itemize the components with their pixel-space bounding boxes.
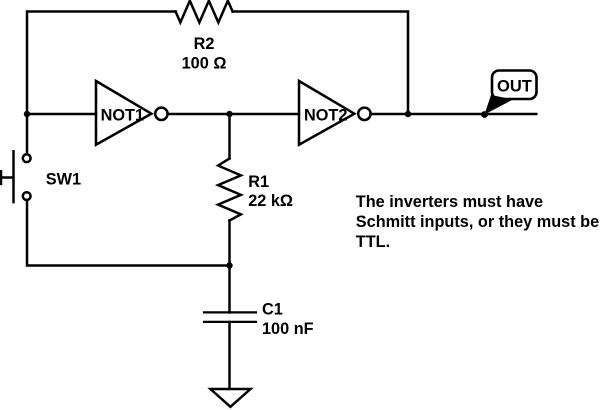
- inverter NOT1 bubble: [155, 108, 167, 120]
- switch SW1 plunger stem: [1, 176, 13, 179]
- svg-text:C1: C1: [262, 301, 283, 319]
- junction node B (NOT1 out / R1 top): [226, 111, 232, 117]
- capacitor C1 top plate: [204, 311, 256, 313]
- wire C1 bottom plate to ground: [228, 322, 231, 389]
- wire node A to NOT1 input: [27, 113, 96, 116]
- wire top left segment (node A to R2 left): [27, 12, 176, 115]
- net label OUT pointer wedge: [485, 95, 514, 115]
- svg-text:NOT1: NOT1: [101, 106, 144, 124]
- wire R1 bottom to node C: [228, 221, 231, 266]
- svg-text:TTL.: TTL.: [356, 233, 390, 251]
- net label OUT attach dot: [481, 111, 488, 118]
- wire node A down to SW1 top pin: [26, 114, 29, 154]
- svg-text:100 Ω: 100 Ω: [182, 54, 227, 72]
- svg-text:NOT2: NOT2: [304, 106, 347, 124]
- capacitor C1 bottom plate: [204, 321, 256, 323]
- wire node B down to R1 top: [228, 114, 231, 159]
- svg-text:22 kΩ: 22 kΩ: [248, 192, 293, 210]
- switch SW1 top contact circle: [23, 154, 31, 162]
- junction node A (left rail / input): [24, 111, 30, 117]
- svg-text:SW1: SW1: [46, 171, 81, 189]
- inverter NOT2 triangle: [299, 81, 354, 145]
- junction node C (bottom rail / R1 / C1): [226, 262, 232, 268]
- switch SW1 actuator bar: [12, 151, 15, 202]
- svg-text:R1: R1: [248, 173, 269, 191]
- svg-text:100 nF: 100 nF: [262, 320, 314, 338]
- inverter NOT1 triangle: [96, 81, 151, 145]
- wire node C to C1 top plate: [228, 266, 231, 313]
- junction node D (feedback / NOT2 out): [405, 111, 411, 117]
- wire NOT2 output to line end: [371, 113, 537, 116]
- svg-text:R2: R2: [194, 35, 215, 53]
- inverter NOT2 bubble: [358, 108, 370, 120]
- resistor R1 zigzag: [218, 159, 241, 221]
- net label OUT box: [492, 71, 537, 100]
- wire SW1 bottom pin to bottom rail: [27, 200, 230, 266]
- svg-text:The inverters must have: The inverters must have: [356, 193, 543, 211]
- ground symbol: [211, 389, 251, 407]
- switch SW1 bottom contact circle: [23, 192, 31, 200]
- switch SW1 plunger cap: [0, 171, 2, 184]
- wire top right segment (R2 right to right vertical): [233, 12, 408, 115]
- resistor R2 zigzag: [176, 1, 233, 23]
- svg-text:Schmitt inputs, or they must b: Schmitt inputs, or they must be: [356, 213, 599, 231]
- svg-text:OUT: OUT: [497, 78, 532, 96]
- wire NOT1 output to NOT2 input: [168, 113, 300, 116]
